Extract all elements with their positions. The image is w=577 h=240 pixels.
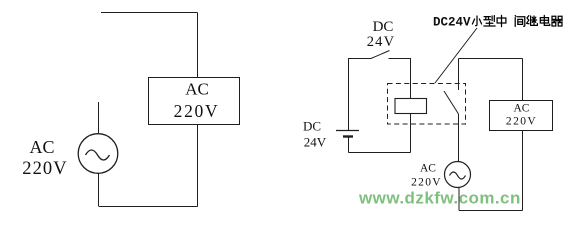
ac source G1 circle	[78, 134, 118, 174]
glyph 电	[540, 15, 549, 25]
svg-text:DC: DC	[303, 119, 321, 134]
svg-text:24V: 24V	[367, 34, 396, 50]
svg-text:AC: AC	[420, 163, 436, 175]
glyph 小	[472, 16, 481, 26]
annotation CJK 小型中间继电器 drawn as strokes	[472, 15, 562, 26]
wire into relay coil top	[410, 59, 412, 99]
leader line to relay annotation	[435, 28, 477, 83]
wire below AC source G2	[458, 188, 460, 211]
wire down to load box (right)	[522, 59, 524, 101]
load box AC 220V (left)	[149, 78, 240, 125]
svg-text:220V: 220V	[174, 101, 220, 121]
relay contact K1 blade	[444, 91, 459, 114]
svg-text:AC: AC	[29, 137, 54, 157]
wire bottom-left horizontal	[99, 206, 198, 208]
wire bottom of DC loop	[349, 152, 411, 154]
relay K1 dashed boundary	[388, 84, 466, 125]
svg-text:DC24V: DC24V	[433, 16, 471, 30]
glyph 间	[515, 16, 525, 27]
relay coil K1	[395, 99, 427, 114]
wire top-left horizontal	[101, 12, 198, 14]
wire below load box	[197, 125, 199, 207]
relay contact K1 upper terminal	[458, 59, 460, 91]
wire left side of DC loop	[348, 59, 350, 131]
svg-text:AC: AC	[514, 103, 530, 115]
svg-text:24V: 24V	[304, 135, 327, 150]
glyph 继	[527, 16, 538, 26]
wire into load box top	[197, 13, 199, 78]
wire stub above AC source	[98, 102, 100, 133]
svg-text:220V: 220V	[411, 177, 442, 189]
svg-text:AC: AC	[185, 80, 209, 99]
ac source G2 sine	[450, 172, 466, 179]
glyph 型	[484, 16, 495, 26]
svg-text:www.dzkfw.com.cn: www.dzkfw.com.cn	[358, 189, 521, 208]
ac source G1 sine	[86, 150, 110, 160]
wire contact to AC source	[458, 114, 460, 162]
wire below right load box	[522, 131, 524, 211]
wire below AC source	[98, 174, 100, 207]
svg-text:DC: DC	[373, 19, 394, 35]
wire top of AC loop	[459, 58, 523, 60]
wire bottom of AC loop	[459, 210, 523, 212]
battery B1 short plate	[343, 135, 353, 137]
glyph 器	[552, 16, 563, 26]
wire battery to bottom	[348, 138, 350, 153]
wire up to relay coil bottom	[410, 114, 412, 153]
load box AC 220V (right)	[490, 101, 553, 131]
battery B1 long plate	[336, 130, 359, 132]
glyph 中	[497, 15, 506, 26]
ac source G2 circle	[445, 162, 471, 188]
svg-text:220V: 220V	[22, 159, 68, 179]
switch S1 (DC 24V)	[348, 51, 411, 59]
svg-text:220V: 220V	[506, 116, 537, 128]
